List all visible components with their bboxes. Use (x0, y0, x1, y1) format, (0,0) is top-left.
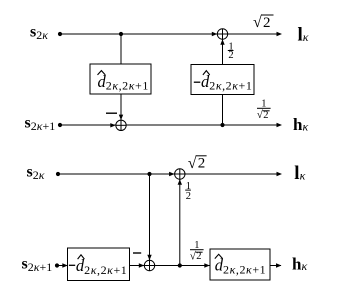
arrowhead end of bottom wire (diagram 1) (277, 123, 283, 127)
box P2 minus d-hat (diagram 1 right) (191, 65, 254, 95)
arrowhead end of bottom wire (diagram 2) (276, 263, 282, 267)
arrowhead down into adder A2 (diagram 1) (119, 115, 123, 121)
adder A4 (diagram 2 bottom) (144, 260, 154, 270)
gain label sqrt2 (diagram 1) (253, 14, 274, 31)
wire vertical left (diagram 1, node A to adder A2) (120, 34, 122, 120)
svg-text:s2κ+1: s2κ+1 (22, 255, 53, 274)
wire vertical right (diagram 1, node B to adder A1) (222, 39, 224, 125)
arrowhead down into adder A4 (diagram 2) (147, 255, 151, 260)
node D junction dot (diagram 2 bottom wire) (178, 263, 182, 267)
gain label sqrt2 (diagram 2) (188, 155, 207, 172)
box P4 d-hat (diagram 2 right) (210, 249, 270, 280)
arrowhead up into adder A1 (diagram 1) (220, 39, 224, 45)
node A junction dot (diagram 1 top wire) (119, 32, 123, 36)
arrowhead end of top wire (diagram 2) (277, 172, 283, 176)
minus sign at adder A4 (diagram 2) (133, 252, 141, 254)
node dot input s2k+1 (diagram 2) (55, 263, 59, 267)
arrowhead into adder A2 from left (diagram 1) (110, 123, 116, 127)
svg-text:s2κ: s2κ (27, 163, 45, 182)
wire bottom (diagram 2, s2k+1 to hk) (57, 265, 281, 267)
node dot input s2k (diagram 2) (56, 172, 60, 176)
label d-hat box P1 (98, 71, 149, 93)
svg-text:lκ: lκ (294, 163, 305, 184)
arrowhead end of top wire (diagram 1) (277, 32, 283, 36)
box P1 d-hat (diagram 1 left) (90, 64, 151, 94)
adder A1 (diagram 1 top) (217, 29, 227, 39)
svg-text:s2κ+1: s2κ+1 (25, 114, 56, 133)
minus sign at adder A2 (diagram 1) (106, 112, 117, 114)
wire top (diagram 2, s2k to lk) (58, 173, 281, 175)
adder A2 (diagram 1 bottom) (116, 120, 126, 130)
node B junction dot (diagram 1 bottom wire) (220, 123, 224, 127)
gain label 1/2 (diagram 1) (228, 42, 234, 61)
svg-text:1: 1 (194, 240, 199, 251)
svg-text:lκ: lκ (298, 25, 309, 46)
label minus d-hat box P3 (69, 255, 127, 277)
arrowhead into adder A1 (diagram 1 top) (212, 32, 218, 36)
wire bottom (diagram 1, s2k+1 to hk) (60, 124, 281, 126)
wire vertical left (diagram 2, node C to adder A4) (149, 174, 151, 260)
arrowhead into adder A3 (diagram 2 top) (169, 172, 175, 176)
svg-text:s2κ: s2κ (30, 23, 48, 42)
label minus d-hat box P2 (194, 71, 253, 93)
arrowhead up into adder A3 (diagram 2) (178, 179, 182, 185)
svg-text:2: 2 (263, 15, 271, 31)
svg-text:hκ: hκ (292, 255, 307, 274)
adder A3 (diagram 2 top) (175, 169, 185, 179)
arrowhead into box P3 (diagram 2) (62, 263, 68, 267)
box P3 minus d-hat (diagram 2 left) (68, 248, 130, 281)
svg-text:hκ: hκ (293, 115, 308, 134)
gain label 1/sqrt2 (diagram 1) (257, 98, 271, 121)
svg-text:√: √ (188, 155, 197, 172)
node C junction dot (diagram 2 top wire) (147, 172, 151, 176)
arrowhead into adder A4 from box P3 (diagram 2) (139, 263, 145, 267)
svg-text:√: √ (253, 14, 262, 31)
svg-text:1: 1 (261, 98, 266, 109)
node dot input s2k+1 (diagram 1) (58, 123, 62, 127)
wire top (diagram 1, s2k to lk) (60, 33, 281, 35)
svg-text:2: 2 (186, 191, 191, 202)
arrowhead into box P4 (diagram 2) (204, 263, 210, 267)
label d-hat box P4 (215, 254, 266, 276)
svg-text:2: 2 (263, 110, 268, 121)
gain label 1/sqrt2 (diagram 2) (190, 240, 204, 263)
node dot input s2k (diagram 1) (58, 32, 62, 36)
svg-text:2: 2 (198, 156, 206, 172)
svg-text:2: 2 (228, 50, 233, 61)
wire vertical right (diagram 2, node D to adder A3) (179, 179, 181, 265)
svg-text:2: 2 (196, 251, 201, 262)
gain label 1/2 (diagram 2) (185, 181, 191, 202)
